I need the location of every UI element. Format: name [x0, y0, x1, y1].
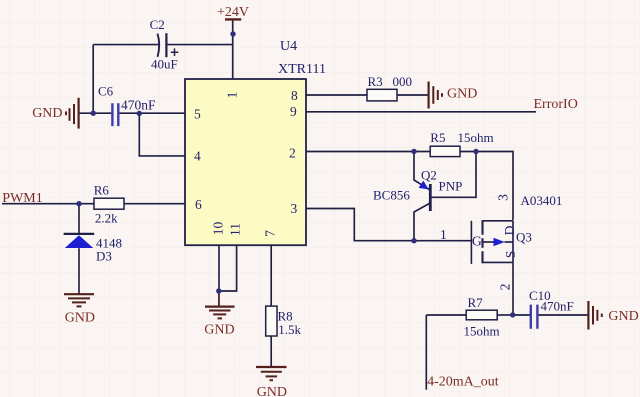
svg-text:2.2k: 2.2k	[95, 211, 118, 226]
svg-text:S: S	[503, 251, 518, 259]
svg-text:A03401: A03401	[521, 193, 563, 208]
svg-text:1.5k: 1.5k	[278, 322, 301, 337]
svg-text:15ohm: 15ohm	[464, 324, 500, 339]
svg-text:4-20mA_out: 4-20mA_out	[427, 375, 499, 390]
svg-text:6: 6	[195, 197, 202, 212]
svg-text:D: D	[502, 225, 517, 235]
svg-text:R7: R7	[468, 295, 484, 310]
svg-text:000: 000	[393, 74, 413, 89]
svg-text:3: 3	[291, 201, 298, 216]
svg-text:7: 7	[262, 230, 277, 237]
svg-text:G: G	[472, 234, 482, 249]
svg-text:GND: GND	[447, 87, 477, 102]
svg-text:D3: D3	[96, 249, 112, 264]
svg-text:C2: C2	[150, 17, 165, 32]
svg-text:R6: R6	[94, 183, 110, 198]
svg-text:470nF: 470nF	[121, 98, 156, 113]
svg-text:PNP: PNP	[439, 179, 463, 194]
svg-text:GND: GND	[32, 106, 62, 121]
svg-text:2: 2	[289, 146, 296, 161]
svg-text:BC856: BC856	[373, 188, 410, 203]
svg-text:U4: U4	[280, 39, 297, 54]
svg-text:GND: GND	[204, 323, 234, 338]
svg-text:4: 4	[194, 149, 201, 164]
svg-text:GND: GND	[257, 385, 287, 397]
svg-text:9: 9	[290, 104, 297, 119]
svg-text:GND: GND	[65, 310, 95, 325]
svg-text:C6: C6	[98, 84, 114, 99]
svg-text:ErrorIO: ErrorIO	[534, 97, 578, 112]
svg-text:15ohm: 15ohm	[458, 130, 494, 145]
svg-text:5: 5	[194, 107, 201, 122]
svg-text:3: 3	[496, 194, 511, 201]
svg-text:1: 1	[440, 227, 447, 242]
svg-text:2: 2	[498, 284, 513, 291]
svg-text:Q3: Q3	[516, 230, 532, 245]
svg-text:8: 8	[291, 88, 298, 103]
svg-text:+24V: +24V	[217, 5, 249, 20]
svg-text:Q2: Q2	[421, 168, 437, 183]
svg-text:470nF: 470nF	[541, 299, 574, 314]
svg-text:PWM1: PWM1	[2, 191, 42, 206]
svg-text:10: 10	[210, 222, 225, 236]
svg-text:11: 11	[228, 223, 243, 236]
svg-text:R3: R3	[368, 74, 383, 89]
svg-text:40uF: 40uF	[151, 57, 178, 72]
svg-text:GND: GND	[608, 309, 638, 324]
svg-text:R5: R5	[430, 130, 445, 145]
svg-text:XTR111: XTR111	[278, 62, 326, 77]
svg-text:1: 1	[225, 92, 240, 99]
